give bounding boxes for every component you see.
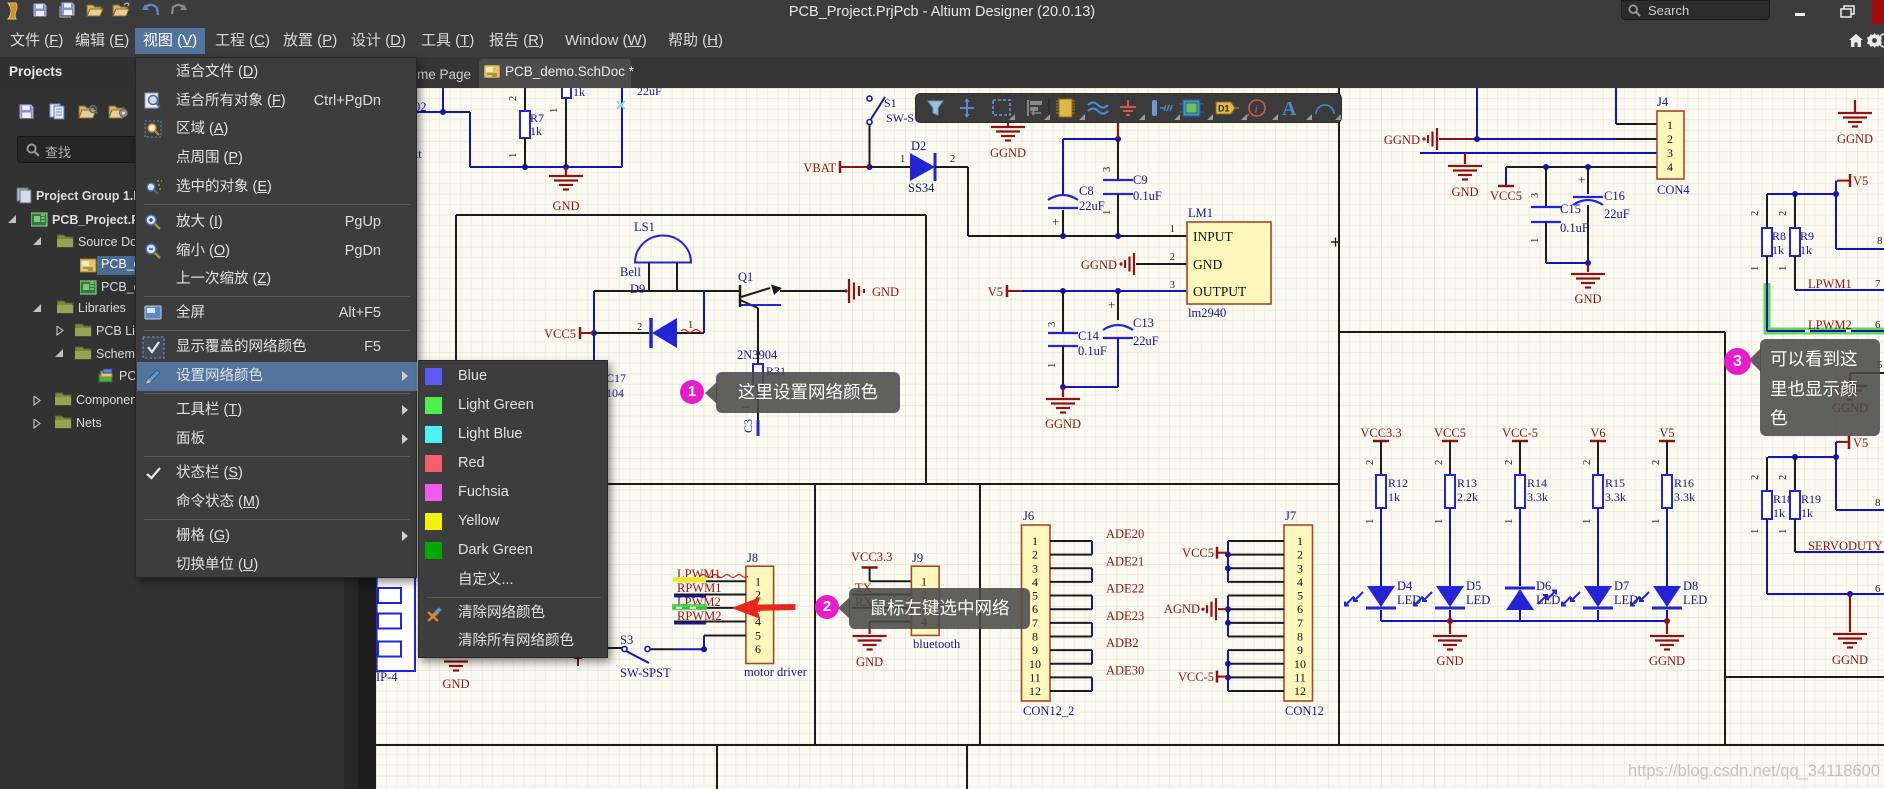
row4 PCB_dem selected xyxy=(97,256,247,275)
svg-text:R9: R9 xyxy=(1800,229,1814,243)
wire D2 to LM1 input xyxy=(935,154,968,236)
panel toolbar icons xyxy=(19,104,34,119)
undo xyxy=(141,3,160,16)
svg-text:R15: R15 xyxy=(1605,476,1625,490)
red arrow xyxy=(725,590,805,625)
wire Q1 collector xyxy=(757,308,759,364)
svg-text:3: 3 xyxy=(1530,193,1541,198)
svg-text:VCC3.3: VCC3.3 xyxy=(1360,426,1401,440)
svg-text:2: 2 xyxy=(1297,548,1303,562)
resistor R14 xyxy=(1515,475,1548,508)
svg-text:5: 5 xyxy=(1297,589,1303,603)
svg-text:Bell: Bell xyxy=(620,265,641,279)
svg-text:1k: 1k xyxy=(1773,506,1785,520)
wire R31 to C3 xyxy=(757,386,759,420)
svg-text:2: 2 xyxy=(1170,252,1175,263)
wire R18 bottom net xyxy=(1750,519,1884,597)
power ground GGND at LM1 pin2 xyxy=(1081,253,1187,275)
svg-text:1: 1 xyxy=(1365,519,1376,524)
led D4 xyxy=(1345,579,1421,621)
svg-text:9: 9 xyxy=(1032,643,1038,657)
led D6 xyxy=(1505,579,1560,621)
svg-text:1: 1 xyxy=(1504,519,1515,524)
svg-text:GND: GND xyxy=(1436,654,1463,668)
svg-text:GGND: GGND xyxy=(1081,258,1117,272)
search field xyxy=(17,136,341,163)
svg-text:4: 4 xyxy=(921,615,927,629)
svg-text:V5: V5 xyxy=(1853,436,1868,450)
svg-text:SW-SPST: SW-SPST xyxy=(620,666,671,680)
svg-text:V6: V6 xyxy=(1590,426,1605,440)
ground GGND right bottom xyxy=(1832,594,1868,667)
svg-text:D8: D8 xyxy=(1683,579,1698,593)
connector J8 motor driver xyxy=(744,551,808,679)
resistor R13 xyxy=(1445,475,1478,508)
save all icon xyxy=(58,2,76,18)
svg-text:RPWM2: RPWM2 xyxy=(677,609,721,623)
svg-text:1: 1 xyxy=(1582,519,1593,524)
net label SERVODUTY xyxy=(1795,539,1884,553)
ground GGND mid right xyxy=(1832,373,1868,415)
left panel xyxy=(0,88,358,789)
wire J4 pin4 net xyxy=(1506,164,1657,185)
svg-text:22uF: 22uF xyxy=(1079,199,1105,213)
svg-text:VCC-5: VCC-5 xyxy=(1502,426,1538,440)
wire pin5 net right xyxy=(1850,359,1884,373)
funnel xyxy=(928,101,943,115)
svg-text:12: 12 xyxy=(1029,684,1041,698)
resistor R31 xyxy=(753,364,786,386)
power ground AGND at J7 xyxy=(1164,598,1228,620)
speaker LS1 xyxy=(634,220,691,263)
net label LPWM2 right xyxy=(1808,318,1881,332)
svg-text:GND: GND xyxy=(1574,292,1601,306)
svg-text:C15: C15 xyxy=(1560,202,1581,216)
svg-text:1: 1 xyxy=(1750,266,1761,271)
svg-text:i: i xyxy=(1255,102,1258,116)
sheet symbol xyxy=(1183,100,1200,116)
svg-text:GGND: GGND xyxy=(1384,133,1420,147)
row3 Source Doc xyxy=(33,237,42,246)
svg-text:1: 1 xyxy=(1667,118,1673,132)
svg-text:2: 2 xyxy=(508,96,519,101)
sheet partition lines xyxy=(376,88,1884,789)
capacitor C17 xyxy=(606,371,626,400)
power port V5 right top xyxy=(1837,174,1868,188)
capacitor C3 xyxy=(741,405,758,436)
svg-text:VCC5: VCC5 xyxy=(1434,426,1466,440)
svg-text:6: 6 xyxy=(1032,602,1038,616)
svg-text:GGND: GGND xyxy=(1837,132,1873,146)
ground GND LED bus xyxy=(1433,621,1467,668)
svg-text:ADE20: ADE20 xyxy=(1106,527,1144,541)
row9 PCB_d xyxy=(98,368,115,384)
svg-text:7: 7 xyxy=(1297,616,1303,630)
svg-text:R19: R19 xyxy=(1801,492,1821,506)
svg-text:1: 1 xyxy=(1170,224,1175,235)
svg-text:C13: C13 xyxy=(1133,316,1154,330)
svg-text:8: 8 xyxy=(1877,235,1883,247)
svg-text:3: 3 xyxy=(1047,322,1058,327)
svg-text:VCC3.3: VCC3.3 xyxy=(851,550,892,564)
capacitor C16 xyxy=(1573,167,1630,263)
svg-text:D7: D7 xyxy=(1614,579,1629,593)
wire vertical x622 xyxy=(621,88,623,167)
wire net-02 to R7 rail xyxy=(417,88,622,170)
ground GND at J9 xyxy=(853,622,887,670)
align xyxy=(1027,100,1029,116)
wire J4 pin3 net xyxy=(1420,152,1657,154)
svg-text:6: 6 xyxy=(1297,602,1303,616)
svg-text:C9: C9 xyxy=(1133,173,1148,187)
regulator U LM1 lm2940 xyxy=(1170,206,1271,320)
wire resistor to GND rail xyxy=(549,98,566,167)
svg-text:9: 9 xyxy=(1297,643,1303,657)
svg-text:TX: TX xyxy=(855,581,872,595)
row10 Components xyxy=(33,396,41,406)
power port VCC-5 at J7 xyxy=(1178,670,1228,684)
net label RPWM2 xyxy=(674,609,721,624)
led D8 xyxy=(1631,579,1707,621)
wire V5 output rail xyxy=(1022,288,1187,294)
svg-text:SW-S: SW-S xyxy=(886,111,914,125)
svg-text:+: + xyxy=(1108,297,1115,312)
wire R13 to D5 xyxy=(1434,508,1450,586)
wire J6 pair 5 net ADB2 xyxy=(1050,636,1139,664)
svg-text:6: 6 xyxy=(1875,319,1881,331)
ground GND below DIP-4 xyxy=(439,648,473,691)
diode D9 Bell xyxy=(594,265,693,348)
svg-text:C17: C17 xyxy=(606,371,626,385)
svg-text:2: 2 xyxy=(921,588,927,602)
svg-text:bluetooth: bluetooth xyxy=(913,637,961,651)
svg-text:GGND: GGND xyxy=(1649,654,1685,668)
connector J7 CON12 xyxy=(1284,509,1324,718)
svg-text:1: 1 xyxy=(1778,529,1789,534)
svg-text:GND: GND xyxy=(856,655,883,669)
callout 2 xyxy=(849,588,1030,629)
svg-text:12: 12 xyxy=(1294,684,1306,698)
svg-text:8: 8 xyxy=(1875,497,1881,509)
svg-text:R7: R7 xyxy=(530,111,544,125)
svg-text:LS1: LS1 xyxy=(634,220,655,234)
resistor 1k top edge xyxy=(562,85,585,99)
wire J6 pair 3 net ADE22 xyxy=(1050,582,1144,610)
svg-text:8: 8 xyxy=(1297,629,1303,643)
svg-text:J9: J9 xyxy=(912,551,923,565)
svg-text:1: 1 xyxy=(1778,266,1789,271)
svg-text:C8: C8 xyxy=(1079,184,1094,198)
svg-text:3.3k: 3.3k xyxy=(1674,490,1695,504)
svg-text:1: 1 xyxy=(900,154,905,165)
svg-text:J6: J6 xyxy=(1023,509,1034,523)
svg-text:V5: V5 xyxy=(988,285,1003,299)
save icon xyxy=(33,3,47,17)
svg-text:A: A xyxy=(1282,98,1297,120)
svg-text:ADB2: ADB2 xyxy=(1106,636,1139,650)
svg-text:1: 1 xyxy=(1102,210,1113,215)
svg-text:R8: R8 xyxy=(1772,229,1786,243)
power port VBAT xyxy=(803,161,869,175)
home + gear icons right xyxy=(1849,34,1863,47)
svg-text:0.1uF: 0.1uF xyxy=(1078,344,1107,358)
svg-text:+: + xyxy=(1052,214,1059,229)
power port VCC-5 LED column xyxy=(1502,426,1538,475)
wire J6 pair 2 net ADE21 xyxy=(1050,554,1144,582)
node 02 fragment xyxy=(412,100,427,161)
title bar xyxy=(0,0,1884,25)
svg-text:VCC5: VCC5 xyxy=(544,327,576,341)
wire J6 pair 1 net ADE20 xyxy=(1050,527,1144,555)
row7 PCB Libra xyxy=(56,326,64,336)
altium logo xyxy=(5,2,21,21)
ground GGND below caps xyxy=(1045,387,1081,431)
wire base rail xyxy=(591,291,740,336)
svg-text:+: + xyxy=(1578,172,1585,187)
svg-text:CON12: CON12 xyxy=(1285,704,1324,718)
svg-text:SERVODUTY: SERVODUTY xyxy=(1808,539,1883,553)
svg-text:22uF: 22uF xyxy=(1604,207,1630,221)
svg-text:0.1uF: 0.1uF xyxy=(1560,221,1589,235)
svg-text:5: 5 xyxy=(755,629,761,643)
svg-text:22uF: 22uF xyxy=(637,88,662,98)
svg-text:R13: R13 xyxy=(1457,476,1477,490)
ground GND below C16 xyxy=(1571,263,1605,306)
menu bar xyxy=(0,25,1884,57)
svg-text:1k: 1k xyxy=(1800,243,1812,257)
wire LPWM1 right xyxy=(1795,277,1884,291)
svg-text:J8: J8 xyxy=(747,551,758,565)
wire R15 to D7 xyxy=(1582,508,1598,586)
capacitor 22uF label fragment xyxy=(617,84,662,109)
svg-text:R14: R14 xyxy=(1527,476,1547,490)
svg-text:2.2k: 2.2k xyxy=(1457,490,1478,504)
svg-text:1: 1 xyxy=(1297,534,1303,548)
resistor R12 xyxy=(1376,475,1408,508)
svg-text:D2: D2 xyxy=(911,139,926,153)
svg-text:1: 1 xyxy=(1651,519,1662,524)
svg-text:J4: J4 xyxy=(1657,95,1669,109)
svg-text:VCC-5: VCC-5 xyxy=(1178,670,1214,684)
svg-text:2: 2 xyxy=(1032,548,1038,562)
svg-text:GND: GND xyxy=(872,285,899,299)
svg-text:2: 2 xyxy=(1667,132,1673,146)
wire caps bottom xyxy=(1060,384,1118,390)
connector J4 CON4 xyxy=(1657,95,1690,197)
wire J4 pin1 net xyxy=(1616,88,1657,124)
move cross xyxy=(960,101,974,115)
svg-text:3: 3 xyxy=(921,601,927,615)
svg-text:2: 2 xyxy=(950,154,955,165)
resistor R9 xyxy=(1778,194,1814,290)
svg-text:GGND: GGND xyxy=(990,146,1026,160)
connector J6 CON12_2 xyxy=(1022,509,1075,718)
open from xyxy=(112,2,131,17)
svg-text:3.3k: 3.3k xyxy=(1527,490,1548,504)
svg-text:ADE22: ADE22 xyxy=(1106,582,1144,596)
min / restore / close xyxy=(1795,13,1805,16)
svg-text:3: 3 xyxy=(1297,561,1303,575)
svg-text:D4: D4 xyxy=(1397,579,1413,593)
resistor R15 xyxy=(1593,475,1626,508)
capacitor C13 xyxy=(1103,291,1159,387)
wire J9 pin nets TX RX xyxy=(852,581,911,622)
schematic sheet SVG placeholder xyxy=(376,88,1884,789)
capacitor C8 xyxy=(1048,184,1105,236)
svg-text:1: 1 xyxy=(1750,529,1761,534)
svg-text:R31: R31 xyxy=(766,364,786,378)
svg-text:SS34: SS34 xyxy=(908,181,935,195)
resistor R16 xyxy=(1662,475,1695,508)
svg-text:11: 11 xyxy=(1294,670,1306,684)
wire VBAT node to D2 xyxy=(870,154,911,167)
svg-text:1k: 1k xyxy=(573,88,585,99)
wire C15 C16 bottom xyxy=(1546,260,1591,266)
capacitor C14 xyxy=(1047,291,1107,387)
wire J6 pair 6 net ADE30 xyxy=(1050,663,1144,691)
svg-text:6: 6 xyxy=(1875,583,1881,595)
svg-text:22uF: 22uF xyxy=(1133,334,1159,348)
svg-text:GND: GND xyxy=(552,199,579,213)
svg-text:2: 2 xyxy=(1778,211,1789,216)
sheet background xyxy=(376,88,1884,789)
svg-text:CON12_2: CON12_2 xyxy=(1023,704,1074,718)
svg-text:lm2940: lm2940 xyxy=(1188,306,1226,320)
svg-text:VBAT: VBAT xyxy=(803,161,836,175)
svg-text:R16: R16 xyxy=(1674,476,1694,490)
power port V5 xyxy=(988,285,1022,299)
svg-text:2: 2 xyxy=(1434,460,1445,465)
svg-text:1k: 1k xyxy=(530,124,542,138)
svg-text:3: 3 xyxy=(1667,146,1673,160)
svg-text:IP-4: IP-4 xyxy=(376,670,398,684)
chip xyxy=(1059,99,1072,117)
svg-text:1: 1 xyxy=(1530,238,1541,243)
row5 PCB_dem pcb xyxy=(80,280,98,295)
ground GND at J4 pin3 xyxy=(1448,153,1482,199)
svg-text:1: 1 xyxy=(1032,534,1038,548)
switch S3 SW-SPST xyxy=(574,633,671,680)
wire J6 pair 4 net ADE23 xyxy=(1050,609,1144,637)
ground GND xyxy=(549,167,583,213)
power port VCC5 at J4 xyxy=(1490,186,1522,203)
dashed rect xyxy=(993,100,1010,115)
row1 Project Group xyxy=(16,187,33,204)
svg-text:S1: S1 xyxy=(884,96,897,110)
svg-text:2: 2 xyxy=(1750,475,1761,480)
ground GGND right top xyxy=(1837,100,1873,146)
corner triangles xyxy=(1009,114,1341,120)
svg-text:AGND: AGND xyxy=(1164,602,1200,616)
svg-text:ADE21: ADE21 xyxy=(1106,554,1144,568)
gnd xyxy=(1120,100,1136,115)
svg-text:4: 4 xyxy=(1667,160,1673,174)
svg-text:R12: R12 xyxy=(1388,476,1408,490)
svg-text:GGND: GGND xyxy=(1045,417,1081,431)
svg-text:C3: C3 xyxy=(741,419,755,433)
svg-text:4: 4 xyxy=(1297,575,1303,589)
ground GGND LED bus xyxy=(1649,621,1685,668)
svg-text:Q1: Q1 xyxy=(738,270,753,284)
row 3 xyxy=(358,57,1884,88)
svg-text:10: 10 xyxy=(1294,657,1306,671)
svg-text:OUTPUT: OUTPUT xyxy=(1193,284,1247,299)
svg-text:INPUT: INPUT xyxy=(1193,229,1234,244)
wire V5 bus right second xyxy=(1768,442,1884,510)
svg-text:LED: LED xyxy=(1536,593,1560,607)
svg-text:7: 7 xyxy=(1875,278,1881,290)
wire J4 pin2 net xyxy=(1474,88,1657,142)
power port VCC5 LED column xyxy=(1434,426,1466,475)
ground GGND top xyxy=(990,121,1026,160)
svg-text:2: 2 xyxy=(1651,460,1662,465)
svg-text:2: 2 xyxy=(755,588,761,602)
switch S1 xyxy=(867,96,914,125)
svg-text:0.1uF: 0.1uF xyxy=(1133,189,1162,203)
power port VCC5 at J7 xyxy=(1182,546,1228,560)
svg-text:2: 2 xyxy=(1778,475,1789,480)
svg-text:D5: D5 xyxy=(1466,579,1481,593)
svg-text:GND: GND xyxy=(442,677,469,691)
svg-text:10: 10 xyxy=(1029,657,1041,671)
wire S1 to VBAT node xyxy=(867,124,873,170)
svg-text:2: 2 xyxy=(1504,460,1515,465)
svg-text:C16: C16 xyxy=(1604,189,1625,203)
svg-text:GGND: GGND xyxy=(1832,653,1868,667)
svg-text:LPWM2: LPWM2 xyxy=(1808,318,1852,332)
svg-text:4: 4 xyxy=(1032,575,1038,589)
net label LPWM1 yellow highlight xyxy=(673,567,748,583)
svg-text:ADE30: ADE30 xyxy=(1106,663,1144,677)
power ground GND bar after Q1 xyxy=(844,279,899,303)
svg-text:1k: 1k xyxy=(1388,490,1400,504)
diode D2 SS34 xyxy=(908,139,935,195)
wire VCC5 to C17 xyxy=(593,333,595,360)
svg-text:D6: D6 xyxy=(1536,579,1551,593)
net label LPWM2 green highlight xyxy=(672,595,721,610)
search box xyxy=(1621,0,1770,20)
arc xyxy=(1316,105,1334,114)
power port VCC5 xyxy=(544,327,594,341)
wires xyxy=(1088,103,1108,114)
svg-text:2: 2 xyxy=(1365,460,1376,465)
svg-text:1: 1 xyxy=(508,153,519,158)
wire J8 pin nets xyxy=(674,581,746,621)
power port V6 LED column xyxy=(1582,426,1606,475)
net label RPWM1 xyxy=(674,581,721,596)
svg-text:1: 1 xyxy=(921,574,927,588)
svg-text:LED: LED xyxy=(1466,593,1490,607)
svg-text:C14: C14 xyxy=(1078,329,1100,343)
svg-text:LPWM1: LPWM1 xyxy=(1808,277,1852,291)
svg-text:11: 11 xyxy=(1029,670,1041,684)
svg-text:D9: D9 xyxy=(630,282,645,296)
wire R14 to D6 xyxy=(1504,508,1520,586)
power port VCC3.3 at J9 xyxy=(851,550,892,581)
svg-text:V5: V5 xyxy=(1659,426,1674,440)
svg-text:3: 3 xyxy=(755,601,761,615)
wire J7 pin nets xyxy=(1225,541,1284,691)
dropdown + submenu xyxy=(135,57,417,578)
watermark xyxy=(1590,762,1880,781)
svg-text:3: 3 xyxy=(1032,561,1038,575)
svg-text:VCC5: VCC5 xyxy=(1182,546,1214,560)
wire S3 to J8 pins 5 6 xyxy=(608,636,746,653)
resistor R19 xyxy=(1778,457,1821,552)
capacitor C15 xyxy=(1530,167,1589,263)
connector J9 bluetooth xyxy=(911,551,961,651)
svg-text:GND: GND xyxy=(1451,185,1478,199)
